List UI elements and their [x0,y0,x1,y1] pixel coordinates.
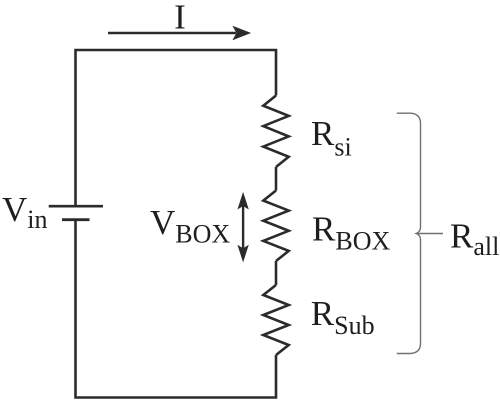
svg-text:Rsi: Rsi [311,114,352,162]
svg-text:Vin: Vin [2,190,48,234]
svg-text:I: I [174,0,186,37]
svg-text:RBOX: RBOX [312,210,390,256]
wire bottom loop: right wire down, bottom wire, left wire up to battery [76,221,277,398]
resistor Rsub [263,285,288,355]
svg-text:VBOX: VBOX [150,203,230,248]
resistor Rsi [263,96,288,168]
battery Vin: long plate [49,205,103,208]
wire top loop: left wire up, top wire, right wire down to Rsi [76,50,277,205]
current arrow I [108,27,250,40]
svg-text:Rall: Rall [450,217,499,262]
Vbox double arrow [238,194,248,261]
wire between Rbox and Rsub [275,261,278,285]
brace Rall [397,113,443,353]
battery Vin: short plate [62,218,90,221]
svg-text:RSub: RSub [311,294,375,340]
resistor Rbox [263,191,288,262]
wire between Rsi and Rbox [275,167,278,191]
